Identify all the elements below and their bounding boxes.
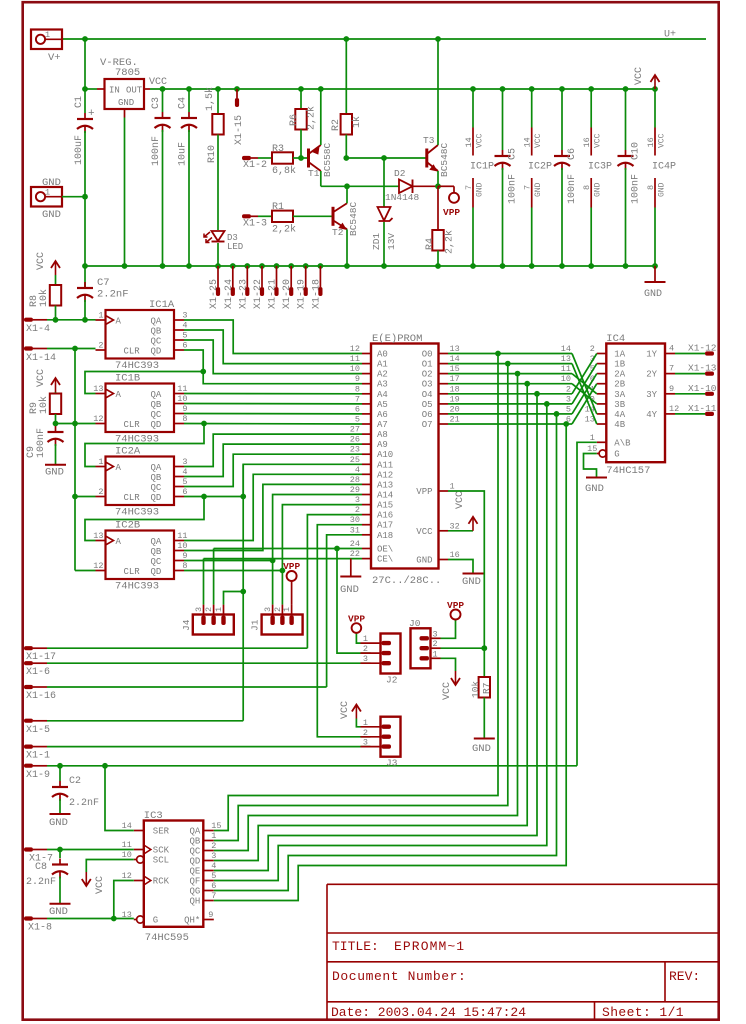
svg-text:A14: A14 [377,491,393,501]
svg-text:X1-9: X1-9 [26,770,50,781]
svg-text:J4: J4 [181,619,192,631]
svg-text:+: + [88,108,95,120]
svg-text:7: 7 [355,394,360,404]
svg-text:10k: 10k [38,289,50,307]
svg-text:1: 1 [450,482,455,492]
svg-text:X1-21: X1-21 [268,279,279,309]
svg-text:IC2P: IC2P [528,162,552,173]
svg-text:ZD1: ZD1 [371,233,382,250]
svg-text:X1-4: X1-4 [26,324,50,335]
svg-text:A5: A5 [377,400,388,410]
svg-text:C5: C5 [508,148,519,160]
svg-text:QF: QF [189,877,200,887]
svg-text:IN: IN [109,86,120,96]
svg-text:CLR: CLR [124,493,141,503]
svg-text:E(E)PROM: E(E)PROM [372,333,422,345]
svg-text:24: 24 [350,539,360,549]
svg-text:T2: T2 [332,227,344,238]
svg-text:A11: A11 [377,460,393,470]
svg-text:R10: R10 [207,145,218,163]
svg-text:10: 10 [122,850,132,860]
svg-text:2B: 2B [614,380,625,390]
svg-text:QB: QB [189,837,200,847]
svg-text:12: 12 [350,344,360,354]
svg-text:VCC: VCC [476,133,485,148]
svg-text:X1-24: X1-24 [224,279,235,309]
svg-text:4: 4 [669,344,674,354]
svg-text:IC4: IC4 [606,333,625,345]
svg-text:74HC595: 74HC595 [145,932,189,944]
svg-text:OE\: OE\ [377,545,393,555]
svg-text:7: 7 [464,185,474,190]
svg-text:O6: O6 [422,410,433,420]
svg-text:100nF: 100nF [36,428,47,458]
svg-text:R3: R3 [272,144,284,155]
svg-text:2: 2 [98,341,103,351]
svg-text:IC2B: IC2B [115,520,140,532]
svg-text:GND: GND [340,584,359,596]
svg-text:1A: 1A [614,350,625,360]
svg-text:14: 14 [122,821,132,831]
svg-text:1Y: 1Y [646,350,657,360]
svg-text:IC2A: IC2A [115,446,141,458]
svg-text:VPP: VPP [283,561,300,572]
svg-text:2: 2 [98,487,103,497]
svg-text:4: 4 [182,321,187,331]
svg-text:3Y: 3Y [646,390,657,400]
svg-text:1: 1 [433,649,438,659]
svg-text:QA: QA [151,317,162,327]
svg-text:2.2nF: 2.2nF [26,877,56,888]
svg-text:VPP: VPP [443,207,460,218]
svg-text:2: 2 [355,505,360,515]
svg-text:16: 16 [582,137,592,147]
svg-text:27C../28C..: 27C../28C.. [372,575,441,587]
svg-text:2: 2 [363,644,368,654]
svg-text:7: 7 [211,891,216,901]
svg-text:T3: T3 [423,135,435,146]
svg-text:GND: GND [118,98,134,108]
svg-text:EPROMM~1: EPROMM~1 [394,939,465,954]
svg-text:GND: GND [49,906,68,918]
svg-text:SCL: SCL [153,856,169,866]
svg-text:7: 7 [523,185,533,190]
svg-text:1: 1 [282,607,292,612]
svg-text:A18: A18 [377,531,393,541]
svg-text:11: 11 [177,384,187,394]
svg-text:R1: R1 [272,202,284,213]
svg-text:X1-16: X1-16 [26,691,56,702]
svg-text:V+: V+ [48,52,61,64]
svg-text:GND: GND [42,177,61,189]
svg-text:32: 32 [450,521,460,531]
svg-text:QD: QD [151,493,162,503]
svg-text:GND: GND [534,182,543,197]
svg-text:20: 20 [450,404,460,414]
svg-text:9: 9 [182,551,187,561]
svg-text:3: 3 [433,629,438,639]
svg-text:Sheet: 1/1: Sheet: 1/1 [602,1005,684,1020]
svg-text:X1-20: X1-20 [282,279,293,309]
svg-text:10k: 10k [470,681,481,698]
svg-text:X1-15: X1-15 [234,115,245,145]
svg-text:29: 29 [350,485,360,495]
svg-text:26: 26 [350,435,360,445]
svg-text:31: 31 [350,525,360,535]
svg-text:REV:: REV: [669,969,700,984]
svg-text:9: 9 [208,910,213,920]
svg-text:A16: A16 [377,511,393,521]
svg-text:1: 1 [45,30,50,40]
svg-text:GND: GND [476,182,485,197]
svg-text:IC3: IC3 [144,810,163,822]
svg-text:O2: O2 [422,370,433,380]
svg-text:5: 5 [566,404,571,414]
svg-text:IC1A: IC1A [149,299,175,311]
svg-text:100nF: 100nF [151,136,162,166]
svg-text:C10: C10 [631,142,642,160]
svg-text:28: 28 [350,475,360,485]
svg-text:A7: A7 [377,420,388,430]
svg-text:O7: O7 [422,420,433,430]
svg-text:3: 3 [363,738,368,748]
svg-text:15: 15 [587,444,597,454]
svg-text:A10: A10 [377,450,393,460]
svg-text:1,5k: 1,5k [204,87,216,111]
svg-text:100nF: 100nF [508,174,519,204]
svg-text:100nF: 100nF [567,174,578,204]
svg-text:3: 3 [194,607,204,612]
svg-text:GND: GND [594,182,603,197]
svg-text:QD: QD [189,857,200,867]
svg-text:Document Number:: Document Number: [332,969,466,984]
svg-text:A6: A6 [377,410,388,420]
svg-text:VCC: VCC [442,682,453,700]
svg-text:A4: A4 [377,390,388,400]
svg-text:QA: QA [151,390,162,400]
svg-text:12: 12 [93,414,103,424]
svg-text:12: 12 [122,871,132,881]
svg-text:8: 8 [182,414,187,424]
svg-text:12: 12 [93,561,103,571]
svg-text:A: A [116,463,122,473]
svg-text:13: 13 [561,354,571,364]
svg-text:3B: 3B [614,400,625,410]
svg-text:13V: 13V [386,233,397,250]
svg-text:X1-12: X1-12 [688,343,717,354]
svg-text:GND: GND [416,556,432,566]
svg-text:QE: QE [189,867,200,877]
svg-text:C3: C3 [151,97,162,109]
svg-text:X1-6: X1-6 [26,667,50,678]
svg-text:6: 6 [211,881,216,891]
svg-text:A12: A12 [377,470,393,480]
svg-text:VCC: VCC [416,527,433,537]
svg-text:VPP: VPP [348,614,365,625]
svg-text:6: 6 [182,341,187,351]
svg-text:2: 2 [433,639,438,649]
svg-text:23: 23 [350,445,360,455]
svg-text:17: 17 [450,374,460,384]
svg-text:O5: O5 [422,400,433,410]
svg-text:10k: 10k [38,396,50,414]
svg-text:A2: A2 [377,370,388,380]
svg-text:100uF: 100uF [74,135,85,165]
svg-text:QH: QH [189,897,200,907]
svg-text:QB: QB [151,547,162,557]
svg-text:GND: GND [49,817,68,829]
svg-text:11: 11 [561,364,571,374]
svg-text:30: 30 [350,515,360,525]
svg-text:R4: R4 [425,238,436,250]
svg-text:8: 8 [582,185,592,190]
svg-text:SCK: SCK [153,846,170,856]
svg-text:10uF: 10uF [178,142,189,166]
svg-text:A\B: A\B [614,438,631,448]
svg-text:VCC: VCC [658,133,667,148]
svg-text:X1-18: X1-18 [311,279,322,309]
svg-text:GND: GND [658,182,667,197]
svg-text:5: 5 [182,477,187,487]
svg-text:Date: 2003.04.24 15:47:24: Date: 2003.04.24 15:47:24 [331,1005,526,1020]
svg-text:VCC: VCC [534,133,543,148]
svg-text:X1-14: X1-14 [26,353,56,364]
svg-text:X1-19: X1-19 [297,279,308,309]
svg-text:7: 7 [669,364,674,374]
svg-text:RCK: RCK [153,877,170,887]
svg-text:27: 27 [350,425,360,435]
svg-text:IC4P: IC4P [652,162,676,173]
svg-text:100nF: 100nF [631,174,642,204]
svg-text:1: 1 [590,433,595,443]
svg-text:2Y: 2Y [646,370,657,380]
svg-text:5: 5 [355,415,360,425]
svg-text:X1-13: X1-13 [688,363,717,374]
svg-text:6: 6 [355,404,360,414]
svg-text:VCC: VCC [36,369,47,387]
svg-text:QD: QD [151,420,162,430]
svg-text:GND: GND [472,743,491,755]
svg-text:8: 8 [646,185,656,190]
svg-text:74HC157: 74HC157 [606,465,650,477]
svg-text:J3: J3 [386,758,398,769]
svg-text:BC548C: BC548C [439,142,450,177]
svg-text:1: 1 [45,188,50,198]
svg-text:VCC: VCC [634,67,645,85]
svg-text:2: 2 [204,607,214,612]
svg-text:T1: T1 [308,168,320,179]
svg-text:1: 1 [214,607,224,612]
svg-text:10: 10 [350,364,360,374]
svg-text:2: 2 [590,344,595,354]
svg-text:3A: 3A [614,390,625,400]
svg-text:QC: QC [151,337,162,347]
svg-text:3: 3 [182,311,187,321]
svg-text:C6: C6 [567,148,578,160]
svg-text:10: 10 [561,374,571,384]
svg-text:6,8k: 6,8k [272,165,296,177]
svg-text:1: 1 [98,311,103,321]
svg-text:IC1B: IC1B [115,373,140,385]
svg-text:CLR: CLR [124,567,141,577]
svg-text:CLR: CLR [124,420,141,430]
svg-text:1: 1 [211,831,216,841]
svg-text:4: 4 [182,467,187,477]
svg-text:21: 21 [450,415,460,425]
svg-text:A3: A3 [377,380,388,390]
svg-text:14: 14 [450,354,460,364]
svg-text:3: 3 [211,851,216,861]
svg-text:9: 9 [355,374,360,384]
svg-text:QD: QD [151,347,162,357]
svg-text:QC: QC [151,410,162,420]
svg-text:1: 1 [363,718,368,728]
svg-text:GND: GND [42,209,61,221]
svg-text:GND: GND [644,289,662,300]
svg-text:9: 9 [669,384,674,394]
svg-text:QA: QA [189,827,200,837]
svg-text:VCC: VCC [594,133,603,148]
svg-text:SER: SER [153,827,170,837]
svg-text:19: 19 [450,394,460,404]
svg-text:3: 3 [363,654,368,664]
svg-text:QC: QC [151,557,162,567]
svg-text:J1: J1 [250,619,261,631]
svg-text:A8: A8 [377,430,388,440]
svg-text:X1-10: X1-10 [688,383,717,394]
svg-text:X1-2: X1-2 [243,160,267,171]
svg-text:10: 10 [177,394,187,404]
svg-text:CE\: CE\ [377,555,393,565]
svg-text:LED: LED [227,242,243,252]
svg-text:A17: A17 [377,521,393,531]
svg-text:A15: A15 [377,501,393,511]
svg-text:15: 15 [211,821,221,831]
svg-text:QG: QG [189,887,200,897]
svg-text:A: A [116,317,122,327]
svg-text:11: 11 [122,840,132,850]
svg-text:BC558C: BC558C [322,142,333,177]
svg-text:2: 2 [363,728,368,738]
svg-text:QC: QC [151,483,162,493]
svg-text:6: 6 [182,487,187,497]
svg-text:D2: D2 [394,168,406,179]
svg-text:14: 14 [561,344,571,354]
svg-text:C4: C4 [178,97,189,109]
svg-text:R7: R7 [481,683,492,694]
svg-text:A: A [116,390,122,400]
svg-text:CLR: CLR [124,347,141,357]
svg-text:A13: A13 [377,480,393,490]
svg-text:11: 11 [177,531,187,541]
svg-text:16: 16 [450,550,460,560]
svg-text:16: 16 [646,137,656,147]
svg-text:O0: O0 [422,350,433,360]
svg-text:14: 14 [523,137,533,147]
svg-text:C8: C8 [35,862,47,873]
svg-text:C1: C1 [74,96,85,108]
svg-text:14: 14 [464,137,474,147]
svg-text:6: 6 [566,415,571,425]
svg-text:GND: GND [585,483,604,495]
svg-text:VPP: VPP [447,600,464,611]
svg-text:8: 8 [355,384,360,394]
svg-text:4: 4 [355,465,360,475]
svg-text:25: 25 [350,455,360,465]
svg-text:3: 3 [566,394,571,404]
svg-text:A1: A1 [377,360,388,370]
svg-text:22: 22 [350,549,360,559]
svg-text:2.2nF: 2.2nF [69,798,99,809]
svg-text:QC: QC [189,847,200,857]
svg-text:11: 11 [350,354,360,364]
svg-text:GND: GND [462,576,481,588]
svg-text:74HC393: 74HC393 [115,507,159,519]
svg-text:TITLE:: TITLE: [332,939,379,954]
svg-text:QB: QB [151,400,162,410]
svg-text:VPP: VPP [416,487,432,497]
svg-text:G: G [614,450,619,460]
svg-text:X1-11: X1-11 [688,403,717,414]
svg-text:1k: 1k [351,116,363,128]
svg-text:3: 3 [355,495,360,505]
svg-text:QH*: QH* [184,916,200,926]
svg-text:OUT: OUT [126,86,143,96]
svg-text:O4: O4 [422,390,433,400]
svg-text:2: 2 [566,384,571,394]
svg-text:8: 8 [182,561,187,571]
svg-text:J0: J0 [409,618,421,629]
svg-text:G: G [153,916,158,926]
svg-text:12: 12 [669,404,679,414]
svg-text:1N4148: 1N4148 [385,192,420,203]
svg-text:X1-5: X1-5 [26,725,50,736]
svg-text:R2: R2 [331,119,342,131]
svg-text:A9: A9 [377,440,388,450]
svg-text:13: 13 [93,384,103,394]
svg-text:1: 1 [363,634,368,644]
svg-text:7805: 7805 [115,67,140,79]
svg-text:13: 13 [93,531,103,541]
svg-text:5: 5 [211,871,216,881]
svg-text:18: 18 [450,384,460,394]
svg-text:4B: 4B [614,420,625,430]
svg-text:GND: GND [45,467,64,479]
svg-text:VCC: VCC [95,876,106,894]
svg-text:VCC: VCC [455,491,466,509]
svg-text:IC1P: IC1P [470,162,494,173]
svg-text:X1-8: X1-8 [28,923,52,934]
svg-text:2,2k: 2,2k [444,230,456,254]
svg-text:X1-25: X1-25 [209,279,220,309]
svg-text:QA: QA [151,463,162,473]
svg-text:74HC393: 74HC393 [115,581,159,593]
svg-text:13: 13 [450,344,460,354]
svg-text:4A: 4A [614,410,625,420]
svg-text:QB: QB [151,473,162,483]
svg-text:9: 9 [182,404,187,414]
svg-text:4Y: 4Y [646,410,657,420]
svg-text:C7: C7 [97,277,110,289]
svg-text:X1-3: X1-3 [243,219,267,230]
svg-text:BC548C: BC548C [348,201,359,236]
svg-text:3: 3 [263,607,273,612]
svg-text:10: 10 [177,541,187,551]
svg-text:O3: O3 [422,380,433,390]
svg-text:QD: QD [151,567,162,577]
svg-text:R6: R6 [289,114,300,126]
svg-text:VCC: VCC [36,252,47,270]
